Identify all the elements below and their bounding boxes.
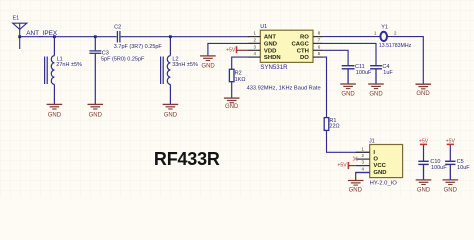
capacitor C11 [342,66,355,84]
inductor L2 [161,37,171,105]
wire CTH to C11 [323,50,348,65]
svg-text:U1: U1 [260,24,267,30]
wire R2 to GND [231,82,233,98]
wire R1 to J1 pin1 [327,130,370,152]
pin 1 ANT [248,31,276,41]
ground GND (C11) [340,84,356,97]
svg-text:1KΩ: 1KΩ [235,77,246,83]
ground GND (C4) [368,84,384,97]
inductor L1 [45,37,55,105]
svg-text:R2: R2 [235,71,242,77]
svg-text:C3: C3 [102,51,109,57]
svg-text:100uF: 100uF [431,165,447,171]
svg-text:GND: GND [201,64,215,70]
wire U1 pin4 to R2 [232,57,249,69]
capacitor C10 [418,161,428,179]
svg-text:433.92MHz, 1KHz Baud Rate: 433.92MHz, 1KHz Baud Rate [247,85,321,91]
svg-text:+5V: +5V [419,138,429,144]
svg-text:O: O [373,157,378,163]
svg-text:GND: GND [341,91,355,97]
svg-text:VCC: VCC [373,163,386,169]
pin 5 DO [300,51,323,61]
svg-text:13.51783MHz: 13.51783MHz [379,43,412,49]
svg-text:SYN531R: SYN531R [260,64,288,71]
ground GND (C3) [88,104,104,118]
svg-text:GND: GND [349,187,363,193]
pin 3 VDD [248,44,276,54]
svg-text:GND: GND [373,170,386,176]
pin 1 I (J1) [356,146,376,155]
pin 7 CAGC [292,38,324,48]
ground GND (L2) [163,104,179,118]
connector J1 body [370,145,403,178]
wire +5V to pin3 [237,49,249,51]
junction at L2 [169,35,172,38]
wire Y1 to GND [387,37,423,84]
svg-text:Y1: Y1 [381,25,388,31]
svg-text:CTH: CTH [297,48,309,54]
svg-text:+5V: +5V [337,163,347,169]
crystal Y1 [380,32,387,41]
ground GND (R2) [224,98,240,110]
svg-text:GND: GND [164,112,178,118]
ground GND (C10) [416,180,432,194]
pin 6 CTH [297,44,324,54]
pin 2 O (J1) [356,153,379,162]
svg-text:RF433R: RF433R [154,149,220,169]
svg-text:+5V: +5V [446,138,456,144]
ground GND (Y1) [416,84,432,97]
svg-text:C11: C11 [355,64,365,70]
wire +5V to J1 pin3 [348,165,355,167]
svg-text:27nH ±5%: 27nH ±5% [56,62,82,68]
svg-text:GND: GND [444,187,458,193]
wire after C2 to U1 pin1 [121,36,249,38]
wire J1 pin4 to GND [356,173,370,181]
svg-text:HY-2.0_IO: HY-2.0_IO [370,181,398,187]
power +5V (C5) [446,138,456,161]
svg-text:VDD: VDD [264,48,276,54]
resistor R2 [229,69,234,81]
junction at antenna [18,35,21,38]
wire U1 pin2 to GND [208,43,260,55]
wire DO to R1 [323,57,326,118]
ground GND (U1 pin2) [200,56,216,70]
pin 2 GND [248,38,277,48]
power +5V (J1 VCC) [337,162,348,169]
pin 8 RO [300,31,323,41]
svg-text:GND: GND [225,104,239,110]
svg-text:RO: RO [300,35,309,41]
junction at C3 [94,35,97,38]
svg-text:J1: J1 [369,139,375,145]
svg-text:33nH ±5%: 33nH ±5% [172,62,198,68]
svg-text:C2: C2 [114,25,121,31]
svg-text:+5V: +5V [226,47,236,53]
wire RO to Y1 [323,36,380,38]
pin 4 SHDN [248,51,280,61]
svg-text:3.7pF (3R7) 0.25pF: 3.7pF (3R7) 0.25pF [114,44,163,50]
svg-text:GND: GND [264,42,277,48]
svg-text:CAGC: CAGC [292,42,310,48]
capacitor C4 [370,66,382,84]
svg-text:GND: GND [417,187,431,193]
antenna E1 [13,23,27,49]
IC U1 SYN531R body [260,30,313,62]
svg-text:ANT: ANT [264,35,277,41]
capacitor C2 [117,31,120,42]
wire ANT_IPEX main [20,36,117,38]
no-connect cross at J1 pin2 [353,157,357,161]
svg-text:C4: C4 [382,64,389,70]
ground GND (J1) [348,181,364,194]
pin 3 VCC (J1) [356,160,387,169]
svg-text:GND: GND [89,112,103,118]
svg-text:22Ω: 22Ω [329,123,339,129]
svg-text:5pF (5R0) 0.25pF: 5pF (5R0) 0.25pF [101,57,145,63]
capacitor C5 [445,161,455,179]
ground GND (L1) [47,104,63,118]
power +5V (C10) [419,138,429,161]
resistor R1 [324,118,329,131]
svg-text:100uF: 100uF [356,70,372,76]
capacitor C3 [89,37,101,105]
svg-text:GND: GND [48,112,62,118]
junction at L1 [53,35,56,38]
power +5V (U1 VDD) [226,46,236,53]
ground GND (C5) [443,180,459,194]
svg-text:10uF: 10uF [457,165,470,171]
svg-text:GND: GND [369,91,383,97]
wire CAGC to C4 [323,43,376,65]
pin 4 GND (J1) [356,167,387,176]
svg-text:DO: DO [300,55,309,61]
svg-text:E1: E1 [13,16,20,22]
svg-text:1uF: 1uF [383,70,393,76]
svg-text:GND: GND [416,91,430,97]
svg-text:SHDN: SHDN [264,55,281,61]
